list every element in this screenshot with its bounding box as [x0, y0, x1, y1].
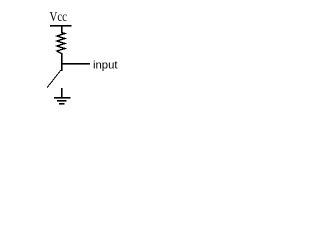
wire ground stem — [61, 88, 63, 98]
wire junction to input label — [61, 63, 90, 65]
svg-text:Vcc: Vcc — [50, 10, 68, 25]
wire resistor bottom to switch — [61, 53, 63, 71]
svg-text:input: input — [93, 60, 118, 72]
resistor R1 — [57, 33, 65, 54]
ground — [54, 97, 71, 105]
switch SW1 lever (open) — [47, 70, 61, 88]
Vcc power rail bar — [50, 25, 72, 27]
wire Vcc rail to resistor top — [61, 25, 63, 33]
